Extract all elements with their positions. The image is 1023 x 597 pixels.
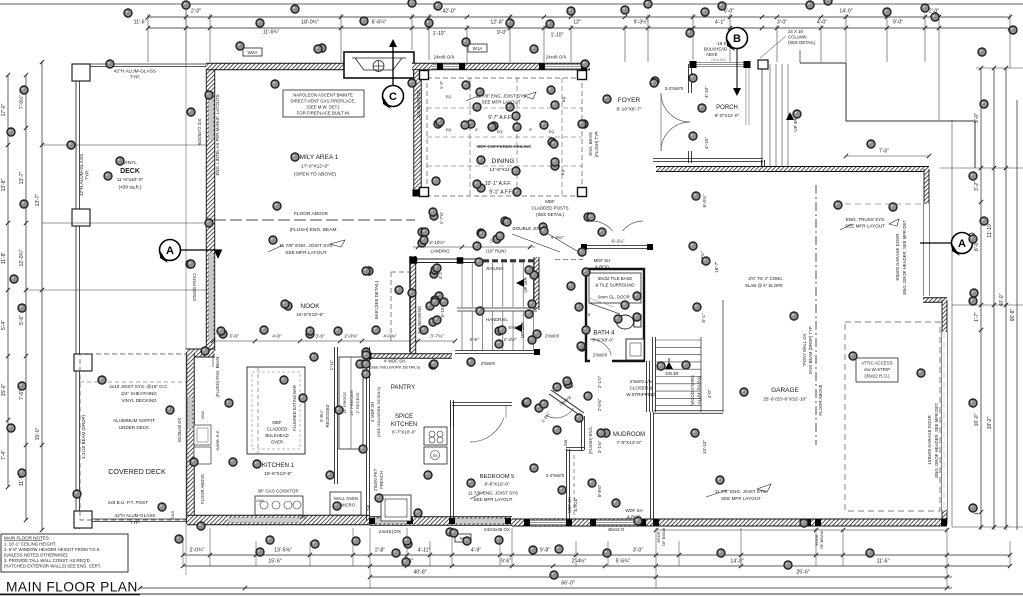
svg-text:ENG. TRUSS SYS: ENG. TRUSS SYS: [846, 217, 884, 222]
svg-text:8'0x8'0 GARAGE DOOR: 8'0x8'0 GARAGE DOOR: [895, 233, 900, 280]
svg-text:ALUM. RA|ING: ALUM. RA|ING: [697, 376, 702, 404]
foyer east wall w/ front door opening: [688, 64, 691, 93]
svg-text:7'-0"X13'-8": 7'-0"X13'-8": [617, 440, 642, 446]
deck post top: [72, 64, 90, 81]
garage south dim line: [656, 529, 947, 531]
west exterior wall (kitchen): [187, 353, 195, 524]
west wall window upper: [209, 96, 214, 140]
svg-text:4'-9": 4'-9": [471, 548, 481, 554]
svg-text:FOYER: FOYER: [618, 97, 641, 104]
svg-text:9'-3½": 9'-3½": [634, 19, 649, 26]
svg-text:(430 sq.ft.): (430 sq.ft.): [119, 185, 142, 191]
svg-text:5'-8¾": 5'-8¾": [597, 484, 602, 497]
svg-text:MDF SH: MDF SH: [594, 258, 611, 263]
svg-text:2-3'0x8'0: 2-3'0x8'0: [665, 86, 684, 91]
window label W1A: [468, 44, 487, 52]
dining west wall: [414, 70, 422, 196]
svg-text:4'-0": 4'-0": [272, 334, 282, 340]
svg-text:36" GAS COOKTOP: 36" GAS COOKTOP: [257, 489, 298, 494]
deck bottom edge: [76, 518, 187, 520]
svg-text:15'-0": 15'-0": [35, 427, 41, 440]
spice kitchen fixtures: [424, 427, 447, 445]
wall oven: [330, 492, 361, 515]
svg-text:EQ.: EQ.: [561, 169, 565, 176]
svg-text:BULKHEAD: BULKHEAD: [704, 47, 727, 52]
svg-text:3'-10½": 3'-10½": [429, 239, 445, 245]
section marker B: [736, 49, 738, 89]
svg-text:BAR (SEE DETAIL): BAR (SEE DETAIL): [374, 280, 379, 319]
deck post 3: [74, 354, 92, 371]
floor above dashed beam family room: [214, 219, 415, 221]
spice east wall: [450, 404, 453, 427]
svg-text:4'-1": 4'-1": [715, 20, 725, 26]
svg-text:2x10 JOIST SYS. @16" O.C.: 2x10 JOIST SYS. @16" O.C.: [109, 384, 168, 389]
svg-text:3'-0": 3'-0": [777, 20, 787, 26]
svg-text:3/4" SHEATHING: 3/4" SHEATHING: [121, 391, 157, 396]
left dimension vertical line 1: [7, 75, 9, 487]
front double door arcs: [661, 93, 690, 122]
svg-text:FLOOR ABOVE: FLOOR ABOVE: [818, 384, 823, 415]
svg-text:& TILE SURROUND: & TILE SURROUND: [595, 283, 634, 288]
svg-text:15'-0": 15'-0": [1, 383, 7, 396]
svg-text:9'-8"X10'-0": 9'-8"X10'-0": [485, 482, 510, 488]
svg-text:9'-6": 9'-6": [501, 559, 511, 565]
deck left edge double line: [75, 64, 77, 529]
svg-text:3'-2": 3'-2": [974, 181, 980, 191]
eave/roof stepped outline: [800, 63, 975, 168]
svg-text:10'-1" A.F.F.: 10'-1" A.F.F.: [485, 181, 511, 187]
bottom dim extension verticals: [182, 541, 184, 566]
svg-text:ALUMINUM SOFFIT: ALUMINUM SOFFIT: [113, 418, 155, 423]
svg-text:18'-0½": 18'-0½": [301, 19, 319, 26]
svg-text:2x6 B.U. P.T. POST: 2x6 B.U. P.T. POST: [108, 500, 148, 505]
svg-text:MDF: MDF: [545, 199, 555, 204]
svg-text:PORCH: PORCH: [716, 105, 738, 111]
north wall dining segment: [412, 63, 590, 70]
coffered ceiling dashed grid: [427, 78, 582, 196]
svg-text:(FLUSH) ENG. BEAM: (FLUSH) ENG. BEAM: [290, 227, 337, 233]
west exterior wall (family room): [206, 64, 215, 351]
svg-text:SLAB @ 4" SLOPE: SLAB @ 4" SLOPE: [745, 283, 783, 288]
svg-text:SEE MFR LAYOUT: SEE MFR LAYOUT: [474, 497, 513, 502]
main floor notes box: [1, 534, 128, 572]
svg-text:13" FREEZER: 13" FREEZER: [349, 390, 354, 416]
section marker A right: [920, 242, 951, 244]
garage attic truss dashed rect: [845, 322, 940, 511]
svg-text:(FLUSH) TYP.: (FLUSH) TYP.: [594, 131, 599, 157]
svg-text:9'-7" A.F.F.: 9'-7" A.F.F.: [488, 115, 512, 121]
floor above dash-dot line: [815, 185, 817, 445]
svg-text:COLUMN: COLUMN: [788, 35, 807, 40]
svg-text:3'-6": 3'-6": [229, 334, 239, 340]
svg-text:17'-0"X12'-0": 17'-0"X12'-0": [301, 164, 329, 170]
svg-text:(FLUSH) ENG.: (FLUSH) ENG.: [588, 426, 593, 454]
svg-text:16'-0": 16'-0": [974, 413, 980, 426]
svg-text:E5: E5: [433, 454, 437, 458]
stair lower treads: [461, 311, 463, 350]
dining corner posts: [420, 71, 429, 80]
svg-text:4'-0": 4'-0": [707, 389, 712, 398]
south exterior wall kitchen segment: [187, 515, 370, 525]
svg-text:MDF: MDF: [272, 420, 282, 425]
foyer south wall segment: [582, 245, 652, 248]
left dimension vertical line 3: [41, 62, 43, 530]
svg-text:(SEE M.W. DET.): (SEE M.W. DET.): [307, 105, 341, 110]
svg-text:66'-0": 66'-0": [561, 581, 574, 587]
north wall fireplace bump: [344, 52, 414, 78]
svg-text:11'-8": 11'-8": [1, 252, 7, 265]
covered deck dashed outline: [80, 354, 187, 520]
svg-text:KITCHEN 1: KITCHEN 1: [262, 462, 295, 469]
svg-text:60/28x72 OX: 60/28x72 OX: [197, 119, 202, 146]
bath vanity: [626, 339, 644, 360]
svg-text:48x16 O: 48x16 O: [608, 527, 625, 532]
svg-text:16'-7": 16'-7": [714, 261, 719, 273]
svg-text:14'-0": 14'-0": [730, 559, 743, 565]
svg-text:42"H ALUM-GLASS: 42"H ALUM-GLASS: [114, 69, 157, 75]
svg-text:FLUSHED EATING BAR: FLUSHED EATING BAR: [292, 385, 297, 431]
svg-text:7'-6": 7'-6": [19, 390, 25, 400]
svg-text:KITCHEN: KITCHEN: [391, 422, 417, 428]
porch east railing vertical: [745, 68, 747, 125]
svg-text:2-2'0x8'0: 2-2'0x8'0: [546, 473, 565, 478]
svg-text:WDF SH: WDF SH: [625, 508, 642, 513]
svg-text:7'-6": 7'-6": [879, 149, 889, 155]
svg-text:2'-4½": 2'-4½": [572, 558, 587, 565]
svg-text:EQ.: EQ.: [497, 130, 504, 134]
svg-text:SPICE: SPICE: [395, 414, 413, 420]
svg-text:8'0x8'0 PATIO: 8'0x8'0 PATIO: [192, 273, 197, 301]
svg-text:GAS: GAS: [256, 499, 264, 503]
svg-text:24 X 18: 24 X 18: [788, 29, 803, 34]
svg-text:15'-6"X13'-6": 15'-6"X13'-6": [264, 471, 292, 477]
foyer-dining opening arcs (cased opening): [592, 221, 613, 231]
top dimension line row 1: [148, 16, 1010, 18]
svg-text:B: B: [733, 33, 741, 45]
svg-text:1'-7": 1'-7": [974, 312, 980, 322]
svg-text:MDF SH: MDF SH: [567, 497, 572, 513]
svg-text:5'-4": 5'-4": [1, 320, 7, 330]
svg-text:GARB. R.E.: GARB. R.E.: [215, 429, 220, 450]
svg-text:O/W: O/W: [200, 411, 205, 419]
top dim extension verticals: [147, 14, 149, 62]
porch south wall: [653, 158, 763, 161]
stair handrail mid: [457, 307, 537, 309]
kitchen west windows: [188, 397, 193, 429]
svg-text:"PONY WALL ON: "PONY WALL ON: [802, 334, 807, 367]
svg-text:PANTRY: PANTRY: [391, 384, 416, 391]
svg-text:12": 12": [573, 20, 581, 26]
bath door arc: [590, 339, 611, 355]
section marker C: [392, 44, 394, 85]
svg-text:6'-0¾": 6'-0¾": [702, 194, 707, 207]
svg-text:4'-0⅝": 4'-0⅝": [383, 334, 397, 340]
svg-text:19'-2": 19'-2": [987, 416, 993, 429]
bottom dim line row C: [370, 576, 952, 578]
svg-text:24x48 O/X: 24x48 O/X: [546, 55, 567, 60]
deck top edge: [76, 63, 208, 65]
svg-text:W.STRIPPING: W.STRIPPING: [626, 392, 656, 397]
svg-text:6'-2¼": 6'-2¼": [612, 239, 625, 244]
svg-text:2'-0": 2'-0": [191, 9, 201, 15]
basement stair well: [652, 337, 655, 412]
svg-text:(SEE DETAIL): (SEE DETAIL): [788, 40, 816, 45]
svg-text:3⅝" TO 4" CONC.: 3⅝" TO 4" CONC.: [748, 276, 783, 281]
fireplace note box: [283, 90, 364, 117]
svg-text:TYP.: TYP.: [130, 520, 140, 525]
svg-text:HANDRAIL: HANDRAIL: [486, 317, 508, 322]
bar dashed counter: [390, 272, 392, 344]
svg-text:5'-6¾": 5'-6¾": [616, 559, 631, 565]
svg-text:15'-6": 15'-6": [268, 559, 281, 565]
bath toilet: [617, 315, 634, 329]
svg-text:3'-0": 3'-0": [633, 548, 643, 554]
garage door 16x8 opening dashed: [941, 332, 943, 510]
svg-text:13'-8": 13'-8": [1, 178, 7, 191]
porch steps: [769, 64, 771, 168]
svg-text:13'-7": 13'-7": [35, 193, 41, 206]
pantry west wall: [366, 347, 369, 521]
svg-text:6'-7"X10'-0": 6'-7"X10'-0": [392, 430, 416, 435]
svg-text:1'-4": 1'-4": [439, 80, 444, 89]
svg-text:13'-10": 13'-10": [702, 440, 707, 455]
svg-text:13'-7": 13'-7": [19, 171, 25, 184]
svg-text:OF BEAM: OF BEAM: [661, 528, 666, 546]
bath outer walls thick border: [586, 269, 644, 361]
top dimension line row 2: [148, 27, 1010, 29]
svg-text:EQ.: EQ.: [562, 96, 566, 103]
svg-text:A: A: [958, 238, 966, 250]
pantry north wall: [366, 354, 452, 359]
svg-text:3-2x10 BEAM (DROP): 3-2x10 BEAM (DROP): [81, 415, 86, 459]
svg-text:17'-0": 17'-0": [1, 103, 7, 116]
fridge wall: [334, 347, 337, 484]
svg-text:(OPEN TO ABOVE): (OPEN TO ABOVE): [294, 172, 337, 178]
svg-text:OF BEAM: OF BEAM: [819, 531, 824, 549]
south exterior wall mudroom/garage: [512, 519, 947, 526]
landing west edge: [409, 257, 411, 352]
entry column: [758, 60, 768, 69]
svg-text:DN 4R: DN 4R: [665, 371, 678, 376]
svg-text:LANDING: LANDING: [430, 249, 450, 254]
bar east wall (hatched): [410, 256, 416, 354]
svg-text:9'-1" A.F.F.: 9'-1" A.F.F.: [489, 190, 513, 196]
svg-text:FRENCH: FRENCH: [379, 471, 384, 488]
deck post 2: [72, 209, 90, 226]
svg-text:SEE MFR LAYOUT: SEE MFR LAYOUT: [285, 250, 327, 256]
svg-text:4' WDF SH.: 4' WDF SH.: [384, 359, 407, 364]
svg-text:2'8x8'0: 2'8x8'0: [481, 361, 495, 366]
svg-text:1'-10": 1'-10": [551, 33, 564, 39]
bottom dim line row D: [140, 587, 952, 589]
svg-text:6'-6¼": 6'-6¼": [372, 20, 387, 26]
svg-text:66'-8": 66'-8": [1010, 308, 1016, 321]
svg-text:1'-11": 1'-11": [329, 359, 334, 370]
bath shower box: [589, 273, 641, 303]
svg-text:MAIN FLOOR PLAN: MAIN FLOOR PLAN: [6, 580, 138, 595]
svg-text:1'-7¾": 1'-7¾": [439, 211, 444, 224]
svg-text:BATH 4: BATH 4: [593, 330, 615, 337]
svg-text:60/28x48 OX: 60/28x48 OX: [177, 418, 182, 443]
south wall window kitchen: [228, 518, 300, 523]
kitchen island: [247, 367, 305, 454]
svg-text:2'-0¾": 2'-0¾": [597, 398, 602, 411]
west wall jog at nook: [186, 349, 215, 357]
svg-text:6'-0"X11'-0": 6'-0"X11'-0": [715, 113, 740, 119]
svg-text:2'8x8'0: 2'8x8'0: [545, 334, 560, 339]
svg-text:5'-6": 5'-6": [19, 315, 25, 325]
svg-text:2'-0⅝": 2'-0⅝": [344, 334, 358, 340]
svg-text:MAIN FLOOR NOTES:: MAIN FLOOR NOTES:: [4, 536, 50, 541]
mudroom sink: [381, 495, 411, 521]
svg-text:3. PROVIDE TALL WALL CONST.: 3. PROVIDE TALL WALL CONST. AS REQ'D: [4, 558, 90, 563]
svg-text:4'-10": 4'-10": [704, 86, 709, 98]
north exterior wall family/dining: [206, 63, 347, 70]
svg-text:(UNLESS NOTED OTHERWISE).: (UNLESS NOTED OTHERWISE).: [4, 553, 69, 558]
svg-text:8'-1": 8'-1": [701, 313, 706, 323]
svg-text:3'-1¾": 3'-1¾": [597, 440, 602, 453]
mudroom angled wall: [551, 390, 584, 413]
patio door west wall: [209, 253, 214, 339]
svg-text:8'-10"X8'-7": 8'-10"X8'-7": [617, 107, 642, 113]
svg-text:4'-6¾": 4'-6¾": [551, 235, 564, 240]
svg-text:CLADDED POSTS: CLADDED POSTS: [531, 206, 568, 211]
stair top rail: [410, 258, 481, 260]
svg-text:NAPOLEON ASCENT B46NTE: NAPOLEON ASCENT B46NTE: [293, 93, 353, 98]
svg-text:W2A: W2A: [248, 50, 259, 55]
mudroom west wall: [581, 416, 584, 450]
svg-text:RAILING: RAILING: [486, 266, 504, 271]
garage door 8x8 dashed opening: [923, 204, 925, 296]
svg-text:2. 8'-0" WINDOW HEADER HEIGH: 2. 8'-0" WINDOW HEADER HEIGHT FROM T.O.S…: [4, 547, 101, 552]
svg-text:11'-10": 11'-10": [987, 222, 993, 237]
svg-text:24x48 |O/X: 24x48 |O/X: [379, 529, 401, 534]
svg-text:13'-5⅝": 13'-5⅝": [274, 548, 292, 554]
svg-text:ATTIC ACCESS: ATTIC ACCESS: [861, 361, 892, 366]
svg-text:3'-7¾": 3'-7¾": [430, 334, 444, 340]
svg-text:2'-0¾": 2'-0¾": [190, 548, 205, 554]
svg-text:ENG BEAM (DROP) TYP: ENG BEAM (DROP) TYP: [808, 326, 813, 374]
svg-text:(SEE MILLWORK DETAILS): (SEE MILLWORK DETAILS): [376, 386, 381, 437]
step from porch wall to garage wall: [761, 160, 764, 170]
attic access box: [856, 358, 898, 382]
garage east jog: [923, 298, 947, 303]
svg-text:(HATCHED EXTERIOR WALLS) SEE: (HATCHED EXTERIOR WALLS) SEE ENG. CERT.: [4, 564, 101, 569]
svg-text:(10" RUN): (10" RUN): [486, 249, 506, 254]
nook dim row: [213, 340, 455, 342]
svg-text:2x6 BEARING: 2x6 BEARING: [416, 89, 421, 118]
svg-text:11'-6"x40'-0": 11'-6"x40'-0": [117, 177, 144, 183]
svg-text:9'-0": 9'-0": [893, 20, 903, 26]
hall dashed wall above bath: [555, 259, 583, 261]
svg-text:TB: TB: [586, 313, 591, 317]
svg-text:3'-9": 3'-9": [469, 337, 479, 342]
svg-text:RECESSED: RECESSED: [325, 404, 330, 427]
svg-text:DIRECT-VENT GAS FIREPLACE,: DIRECT-VENT GAS FIREPLACE,: [290, 99, 355, 104]
svg-text:2'-1½": 2'-1½": [597, 375, 602, 388]
stair upper treads: [461, 263, 463, 307]
svg-text:5'-0"X8'-0": 5'-0"X8'-0": [592, 338, 614, 343]
svg-text:c/w W-STRIP: c/w W-STRIP: [864, 367, 890, 372]
deck mid rail lines: [42, 144, 208, 146]
dining north windows: [432, 64, 462, 69]
svg-text:BULKHEAD: BULKHEAD: [265, 433, 288, 438]
svg-text:EQ.: EQ.: [446, 128, 453, 132]
bedroom5 / spice wall: [450, 400, 453, 521]
svg-text:11 7/8" ENG. JOIST SYS: 11 7/8" ENG. JOIST SYS: [468, 491, 518, 496]
svg-text:DECK: DECK: [120, 168, 140, 175]
svg-text:25'-6": 25'-6": [796, 570, 809, 576]
svg-text:W1A: W1A: [473, 46, 484, 51]
porch railing: [695, 62, 745, 67]
garage NE corner wall: [924, 169, 929, 204]
svg-text:& ROD: & ROD: [595, 265, 609, 270]
svg-text:2'8x8'0: 2'8x8'0: [593, 353, 608, 358]
bottom dim line row B: [183, 565, 1010, 567]
stair dim line above landing: [413, 246, 535, 248]
svg-text:2'-4½": 2'-4½": [504, 336, 517, 342]
svg-text:7'-0½": 7'-0½": [18, 95, 25, 109]
svg-text:2" RECESS: 2" RECESS: [355, 392, 360, 414]
svg-text:GAS: GAS: [170, 510, 175, 519]
svg-text:6'-0": 6'-0": [724, 9, 734, 15]
svg-text:11'-6": 11'-6": [134, 20, 147, 26]
section marker A left: [181, 249, 222, 251]
svg-text:4' MDF SH: 4' MDF SH: [370, 402, 375, 422]
svg-text:7'-4": 7'-4": [1, 450, 7, 460]
svg-text:12'-8": 12'-8": [490, 20, 503, 26]
long extension line x=186: [185, 10, 187, 575]
left dimension vertical line 2: [25, 75, 27, 520]
south exterior wall bed5 segment: [370, 517, 512, 526]
svg-text:FLOOR ABOVE: FLOOR ABOVE: [294, 211, 328, 217]
fridge recess box: [339, 357, 363, 449]
svg-text:60x32 TILE BASE: 60x32 TILE BASE: [598, 276, 633, 281]
svg-text:16'-8"X10'-6": 16'-8"X10'-6": [296, 312, 324, 318]
svg-text:2x6: 2x6: [366, 504, 371, 511]
svg-text:FOR FIREPLACE BUILT-IN: FOR FIREPLACE BUILT-IN: [297, 111, 350, 116]
garage dimension 7-6: [846, 155, 929, 157]
svg-text:COVERED DECK: COVERED DECK: [108, 467, 166, 476]
svg-text:2x6: 2x6: [563, 439, 568, 446]
svg-text:42"H ALUM-GLASS: 42"H ALUM-GLASS: [79, 154, 85, 197]
sheet bottom border line: [0, 593, 1023, 595]
svg-text:16'0x8'0 GARAGE DOOR: 16'0x8'0 GARAGE DOOR: [927, 415, 932, 464]
svg-text:BEDROOM 5: BEDROOM 5: [480, 474, 515, 480]
svg-text:42"H ALUM-GLASS: 42"H ALUM-GLASS: [115, 513, 156, 518]
svg-text:2'8x8'0 PKT: 2'8x8'0 PKT: [373, 468, 378, 491]
svg-text:9'-8": 9'-8": [540, 548, 550, 554]
svg-text:5½": 5½": [508, 325, 516, 330]
svg-text:CLADDED: CLADDED: [267, 427, 288, 432]
svg-text:4'-0": 4'-0": [817, 20, 827, 26]
svg-text:RAILING: RAILING: [711, 58, 726, 62]
svg-text:11'-6¾": 11'-6¾": [263, 30, 280, 36]
svg-text:11'-6": 11'-6": [877, 559, 890, 565]
svg-text:TYP.: TYP.: [85, 170, 91, 180]
svg-text:WALL OVEN: WALL OVEN: [334, 496, 358, 501]
bedroom5 closet door arc: [470, 418, 504, 442]
svg-text:EQ.: EQ.: [549, 130, 556, 134]
svg-text:1. 10'-1" CEILING HEIGHT.: 1. 10'-1" CEILING HEIGHT.: [4, 542, 56, 547]
svg-text:ABVE: ABVE: [706, 52, 718, 57]
svg-text:9'-0": 9'-0": [497, 30, 507, 36]
svg-text:6mm GL. DOOR: 6mm GL. DOOR: [598, 295, 630, 300]
svg-text:(36x22 R.O.): (36x22 R.O.): [864, 374, 890, 379]
svg-text:40'-0": 40'-0": [999, 293, 1005, 306]
stair well right wall hatched: [534, 257, 539, 310]
svg-text:24x48 O/X: 24x48 O/X: [434, 55, 455, 60]
